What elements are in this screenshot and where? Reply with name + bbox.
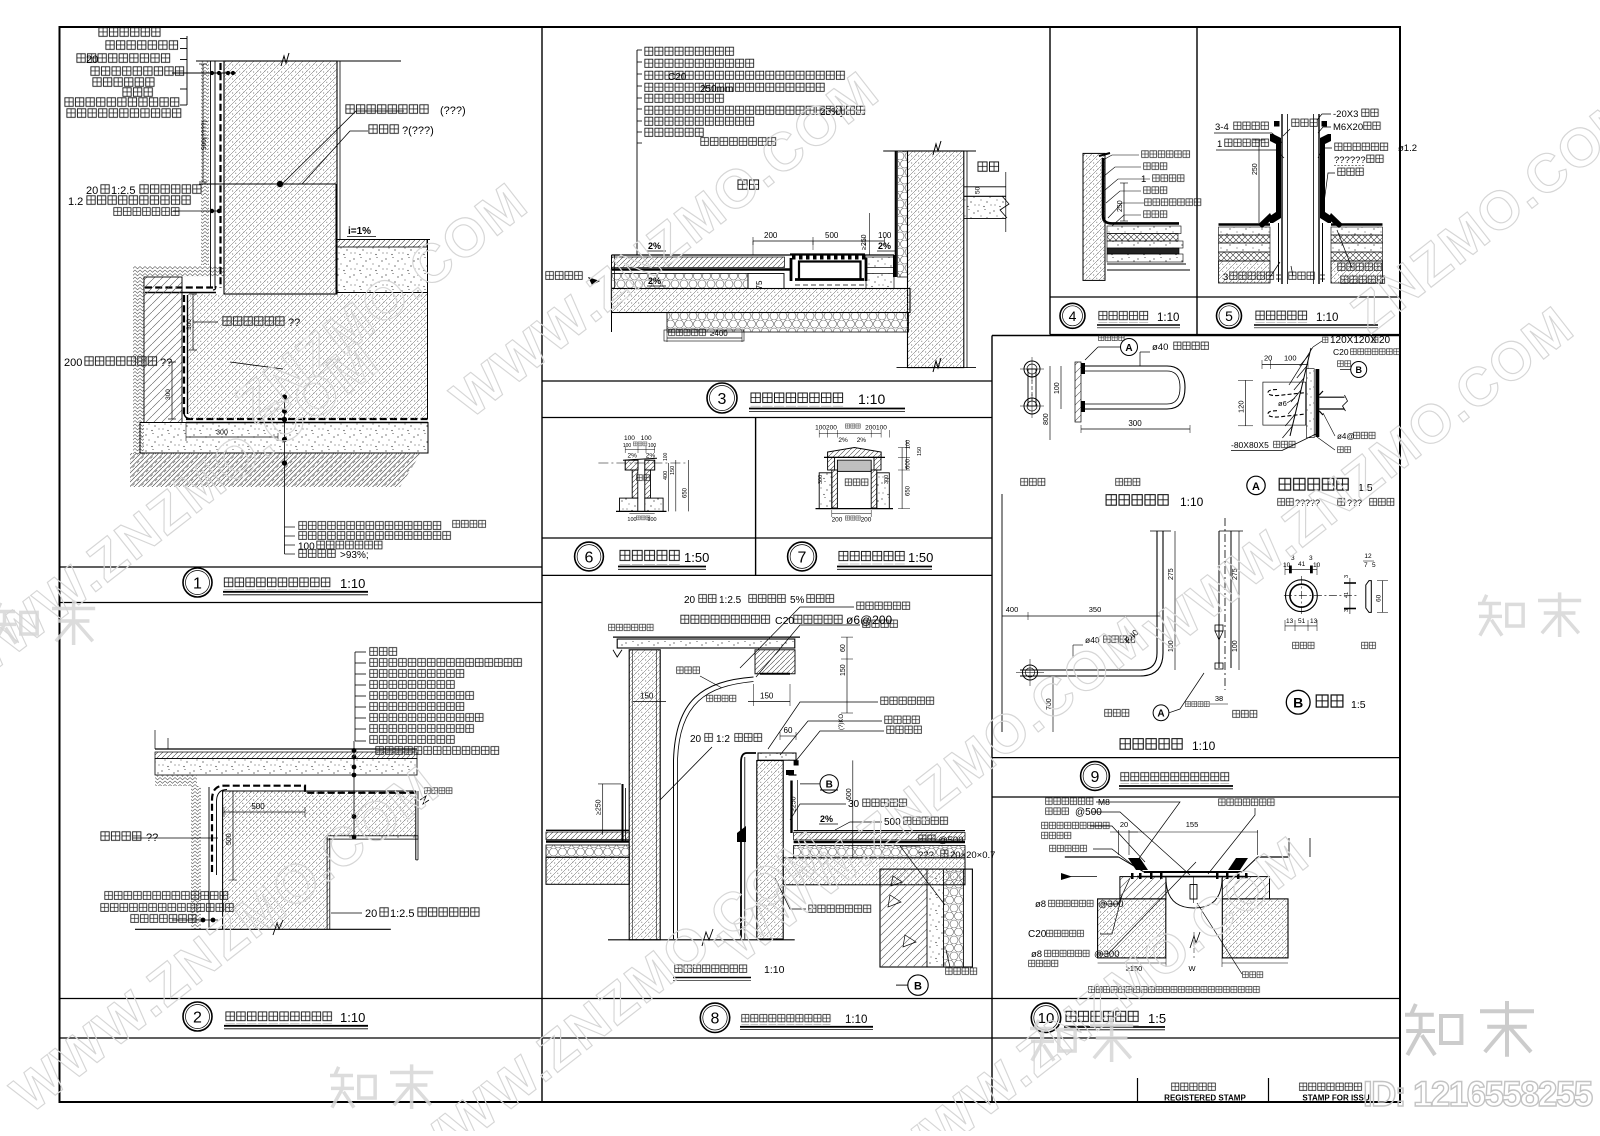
svg-text:100: 100 [878, 231, 892, 240]
d2 right small label [424, 787, 453, 795]
d1 base slab speckle [140, 423, 428, 454]
svg-text:20: 20 [684, 595, 696, 606]
svg-text:1:10: 1:10 [1180, 495, 1204, 509]
svg-text:1: 1 [193, 575, 202, 592]
d8 duct label [676, 666, 700, 675]
title band detail 2 (full width row) [60, 998, 1401, 1000]
d5 roof layers right [1331, 223, 1383, 226]
svg-text:200100: 200100 [865, 425, 887, 432]
d2 dim ticks above slab left [154, 730, 156, 749]
svg-text:(?)KO: (?)KO [839, 714, 845, 730]
d3 right wall: membrane+insulation+concrete [895, 151, 897, 277]
d3 roof layers left of gutter [612, 257, 785, 268]
d9 flange B dims top [1285, 568, 1317, 570]
d1 footing mass [188, 294, 428, 419]
svg-text:60: 60 [840, 644, 847, 652]
d3 eave label [545, 270, 583, 281]
d8 leader labels top right [856, 601, 911, 611]
svg-text:2%: 2% [820, 814, 833, 824]
svg-text:-80X80X5: -80X80X5 [1231, 440, 1269, 450]
d3 interior floor slab right [964, 186, 1006, 188]
d9 A note [1277, 497, 1294, 507]
d8 left dim ge250 [602, 784, 604, 835]
d9 side view dims [1238, 531, 1240, 670]
d9 connection detail A (top right) [1322, 336, 1329, 344]
svg-text:A: A [1125, 343, 1132, 354]
d9 connA wall edge hatched [1290, 348, 1311, 436]
d8 roof right part [794, 830, 965, 832]
d8 left wall membrane upturn [622, 784, 624, 842]
svg-text:60: 60 [1376, 594, 1383, 602]
svg-text:400: 400 [663, 471, 669, 480]
d9 A symbol bottom [1153, 705, 1169, 721]
svg-text:100: 100 [906, 440, 912, 449]
d9 connA leader from header [1289, 347, 1313, 385]
svg-text:100: 100 [648, 443, 657, 449]
svg-text:20: 20 [86, 54, 98, 66]
svg-text:1.2: 1.2 [68, 196, 83, 208]
d2 spec text block [369, 646, 398, 657]
svg-text:1: 1 [1217, 139, 1222, 150]
d10 caption [1088, 986, 1260, 995]
d3 wall bottom break [933, 358, 941, 372]
svg-text:250: 250 [1117, 200, 1124, 212]
svg-text:100: 100 [663, 452, 669, 461]
svg-text:300: 300 [1128, 419, 1142, 428]
svg-text:650: 650 [683, 487, 689, 498]
d8 parapet small label [608, 623, 654, 632]
svg-text:C20: C20 [1028, 929, 1047, 940]
detail 8: roof mechanical exhaust duct [546, 593, 995, 995]
d9 A title [1247, 476, 1265, 494]
svg-text:500: 500 [251, 802, 265, 811]
d4 wall cap flashing [1099, 153, 1110, 156]
svg-text:150: 150 [840, 664, 847, 676]
svg-text:60: 60 [784, 726, 793, 735]
svg-text:3: 3 [718, 391, 727, 408]
svg-text:ø8: ø8 [1031, 949, 1042, 960]
d7 top dims [819, 433, 881, 435]
d8 inset B circle [908, 975, 928, 995]
title band details 4/5 [1050, 296, 1400, 298]
column divider left/middle [541, 27, 543, 1102]
svg-text:200: 200 [764, 231, 778, 240]
d6 bottom dims [629, 513, 654, 515]
svg-text:8: 8 [711, 1011, 720, 1028]
d5 pipe walls [1281, 114, 1283, 284]
d8 right dim ge250 [797, 780, 799, 830]
bottom stamp strip [1137, 1078, 1139, 1102]
watermark zhimo big bottom right [1405, 1001, 1534, 1057]
d3 right roof strip near wall [866, 257, 894, 268]
d1 dim 300 vertical upper [192, 294, 194, 350]
svg-text:3: 3 [1344, 609, 1350, 612]
d9 flange B dims bottom [1285, 625, 1317, 627]
d8 right face membrane upturn [790, 781, 792, 834]
d10 waterstop label [1242, 971, 1264, 979]
svg-text:1:5: 1:5 [1351, 699, 1366, 711]
detail 2: basement roof slab waterproofing corner [100, 646, 523, 935]
d9 connA embed plate [1316, 369, 1320, 437]
d7 cap side tabs [828, 457, 835, 470]
d9 U-bar side view tubes [1081, 366, 1185, 409]
d2 left end backfill [155, 775, 197, 786]
d7 cap slab [828, 448, 882, 458]
d8 cap right downstand [755, 650, 795, 674]
d1 earth below slab [130, 453, 421, 487]
d1 membrane wall vertical [219, 63, 221, 288]
svg-text:ø6: ø6 [1278, 399, 1287, 408]
svg-text:ø40: ø40 [1152, 342, 1168, 353]
detail4/5 divider [1196, 27, 1198, 335]
svg-text:i=1%: i=1% [348, 226, 371, 237]
svg-text:100: 100 [1054, 382, 1061, 394]
d8 roof left part [546, 829, 629, 831]
d5 sleeve lines [1278, 223, 1280, 282]
svg-text:120: 120 [1237, 400, 1246, 413]
d5 collar left [1270, 134, 1281, 223]
d2 label membrane left [100, 830, 142, 842]
title band detail 8 [700, 1003, 729, 1032]
d3 grate teeth [790, 253, 865, 255]
svg-text:2: 2 [193, 1009, 202, 1026]
svg-text:200: 200 [861, 517, 872, 524]
svg-text:1:2.5: 1:2.5 [719, 595, 742, 606]
svg-text:2%: 2% [838, 437, 848, 444]
svg-text:C20: C20 [1333, 347, 1349, 357]
d8 inset detail B [880, 869, 972, 967]
svg-text:20: 20 [1120, 820, 1128, 829]
svg-text:5: 5 [1225, 308, 1233, 324]
svg-text:ø1.2: ø1.2 [1398, 143, 1417, 154]
svg-text:100: 100 [1284, 354, 1297, 363]
d2 dim 500 horizontal [224, 811, 305, 813]
d3 dims above [753, 240, 885, 242]
svg-text:1:10: 1:10 [340, 1010, 365, 1025]
d1 label: waterstop [345, 103, 429, 115]
svg-text:1:50: 1:50 [908, 550, 933, 565]
svg-text:200: 200 [832, 517, 843, 524]
svg-text:2%: 2% [627, 453, 637, 460]
svg-text:1:2.5: 1:2.5 [390, 908, 414, 920]
svg-text:100: 100 [623, 443, 632, 449]
svg-text:500: 500 [226, 833, 233, 845]
svg-text:??: ?? [160, 357, 172, 369]
svg-text:≥400: ≥400 [710, 329, 728, 338]
detail 6: vent well section 1 [598, 435, 688, 523]
title band detail 1 [60, 566, 543, 568]
svg-text:???: ??? [918, 850, 934, 861]
svg-text:30: 30 [848, 799, 860, 810]
svg-text:ø8: ø8 [1035, 899, 1046, 910]
svg-text:1:50: 1:50 [684, 550, 709, 565]
d5 label sealant top [1291, 118, 1318, 128]
d9 U-bar flange plates [1081, 363, 1085, 374]
svg-text:5: 5 [1372, 562, 1376, 569]
svg-text:ø4@: ø4@ [1337, 432, 1354, 441]
d9 L-bar dims [1002, 615, 1160, 617]
svg-text:2%: 2% [857, 437, 867, 444]
svg-text:1:10: 1:10 [1316, 312, 1338, 324]
svg-text:41: 41 [1344, 592, 1350, 598]
svg-text:B: B [1355, 365, 1362, 375]
svg-text:500(????): 500(????) [201, 120, 208, 150]
d1 dim 300 bottom [186, 436, 278, 438]
d9 connA dims [1262, 364, 1308, 366]
d9 captions [1104, 708, 1130, 718]
svg-text:150: 150 [760, 692, 774, 701]
svg-text:10: 10 [1313, 562, 1321, 569]
title band details 6/7 [542, 537, 992, 539]
d7 well label [845, 478, 869, 487]
d9 U-bar dims [1060, 366, 1062, 409]
d8 right vent wall [757, 761, 783, 940]
svg-text:200: 200 [64, 357, 82, 369]
svg-text:150: 150 [670, 466, 676, 475]
d4 dim 250 [1123, 183, 1125, 221]
detail 1: basement exterior wall waterproofing [64, 26, 487, 561]
d9 connA dashed box [1263, 382, 1306, 425]
d10 floor surface right [1258, 856, 1290, 858]
svg-text:1: 1 [1141, 174, 1146, 185]
d4 parapet wall concrete [1083, 153, 1105, 280]
d2 interior wall face strip [326, 838, 328, 929]
svg-text:>93%;: >93%; [340, 550, 369, 561]
d10 cover plate assembly [1119, 857, 1258, 872]
svg-text:1:10: 1:10 [1157, 312, 1179, 324]
d2 wall backfill strip [191, 786, 201, 930]
d1 membrane vertical lower [183, 295, 185, 414]
d3 soffit insulation band [667, 313, 909, 333]
svg-text:A: A [1157, 709, 1164, 720]
d8 duct curve [674, 677, 754, 939]
d10 gap centerline & waterstop [1166, 878, 1222, 908]
svg-text:6: 6 [585, 549, 594, 566]
d6 well label [636, 474, 650, 482]
svg-text:B: B [914, 981, 922, 993]
svg-text:9: 9 [1091, 769, 1100, 786]
d5 dim 250 [1258, 140, 1260, 223]
d9 connA pipe [1319, 396, 1344, 398]
d7 louver [837, 460, 871, 471]
d9 L-bar side view [1224, 518, 1226, 690]
d1 dim 300 vertical lower [171, 362, 173, 419]
svg-text:150: 150 [917, 447, 923, 456]
d2 dim 500 vertical [232, 791, 234, 880]
d2 notch ceiling speckled band [327, 836, 418, 839]
d10 floor surface left [1065, 856, 1119, 858]
svg-text:7: 7 [798, 549, 807, 566]
svg-text:-20X3: -20X3 [1333, 109, 1358, 120]
svg-text:300: 300 [818, 475, 824, 484]
d5 membrane flashing slopes [1258, 213, 1273, 228]
svg-text:3: 3 [1223, 272, 1228, 283]
d8 left lower membrane to roof [590, 823, 598, 825]
svg-text:650: 650 [906, 485, 912, 496]
svg-text:400: 400 [1006, 605, 1019, 614]
svg-text:275: 275 [1168, 568, 1175, 580]
d1 layer leader with dots [172, 72, 236, 74]
d1 wall concrete [224, 61, 337, 294]
svg-text:100: 100 [624, 435, 635, 442]
d9 U-bar front view flange circles [1024, 361, 1040, 377]
svg-text:1:10: 1:10 [845, 1014, 867, 1026]
svg-text:B: B [1293, 695, 1303, 711]
d6 right dims [668, 463, 670, 511]
svg-text:600: 600 [906, 458, 912, 469]
d7 footings [819, 473, 832, 509]
svg-text:250: 250 [1252, 163, 1259, 175]
d8 right vent wall cap [758, 753, 796, 760]
svg-text:1:5: 1:5 [1148, 1011, 1166, 1026]
svg-text:51: 51 [1298, 618, 1306, 625]
d10 top dims [1118, 830, 1120, 855]
svg-text:50: 50 [974, 186, 981, 194]
d4 roof layers [1107, 226, 1181, 234]
svg-text:1:10: 1:10 [1192, 739, 1216, 753]
svg-text:20×20×0.7: 20×20×0.7 [950, 850, 995, 861]
d8 inset leader labels [918, 834, 936, 844]
d4 membrane on wall face [1103, 158, 1179, 223]
detail 10: floor expansion joint [1028, 797, 1310, 994]
svg-text:A: A [1252, 481, 1260, 493]
d1 protection wall hatch [144, 277, 182, 423]
d1 wall right face lower [335, 184, 337, 294]
d3 insulation width dim [667, 337, 742, 339]
d9 flange B side view [1366, 581, 1372, 613]
d1 joint leaders [281, 111, 404, 185]
svg-text:@500: @500 [1075, 807, 1102, 818]
d6 cap right [645, 460, 655, 470]
d1 membrane step top [145, 286, 213, 288]
svg-text:??: ?? [288, 317, 300, 329]
svg-text:5%: 5% [790, 595, 805, 606]
d8 right flashing labels [880, 696, 935, 706]
svg-text:2%: 2% [646, 453, 656, 460]
d7 walls [832, 470, 838, 508]
svg-text:350: 350 [1089, 605, 1102, 614]
d1 construction joint [199, 183, 336, 185]
d9 connA anchor hooks dashed [1268, 390, 1306, 396]
d3 text bracket [636, 50, 638, 255]
detail 9: accessible grab bars [1002, 334, 1400, 753]
title band detail 10 [1031, 1003, 1060, 1032]
d7 right dims [901, 448, 903, 509]
svg-text:1:10: 1:10 [858, 391, 885, 407]
d10 label right [1218, 798, 1275, 807]
d1 text block top-left [98, 26, 161, 38]
d9 B title [1286, 690, 1310, 714]
d1 bottom leader with dots [284, 397, 286, 554]
d9 view captions [1020, 477, 1046, 487]
svg-text:13: 13 [1286, 618, 1294, 625]
svg-text:20: 20 [1264, 354, 1272, 363]
detail 3: roof drain gutter [545, 46, 1009, 372]
detail 7: exhaust well section [815, 423, 923, 523]
d1 ground line [196, 60, 401, 62]
d8 inset waterproof label [945, 967, 978, 976]
d10 left arrow [1061, 873, 1072, 880]
svg-text:155: 155 [1186, 820, 1199, 829]
svg-text:100: 100 [647, 517, 656, 523]
d10 slabs lower [1098, 899, 1166, 958]
sheet frame [60, 27, 1401, 1102]
d9 connA weld marks [1319, 391, 1323, 415]
d4 label leaders [1103, 155, 1139, 160]
d3 spec text block [644, 46, 735, 58]
d6 bottom line [616, 510, 667, 512]
title band detail 9 [992, 335, 1400, 337]
d9 A symbol top [1121, 339, 1138, 356]
d3 gutter channel [799, 262, 861, 280]
d3 75 box [748, 274, 784, 289]
d7 bottom dims [832, 513, 871, 515]
d8 60-150 dims top right [846, 637, 848, 713]
d8 B symbol [820, 775, 838, 793]
d9 L-bar tubes [1020, 531, 1157, 670]
svg-text:STAMP FOR ISSU: STAMP FOR ISSU [1302, 1094, 1369, 1103]
d10 break symbol bottom [1190, 932, 1200, 948]
d2 top slab surface [155, 748, 417, 750]
d4 labels [1141, 150, 1191, 159]
svg-text:(???): (???) [440, 105, 466, 117]
svg-text:3-4: 3-4 [1215, 122, 1229, 133]
d9 connA mortar strip [1307, 369, 1315, 438]
d10 leader lines with X crossing [1096, 802, 1180, 861]
d9 side view flanges [1215, 625, 1223, 631]
d6 walls [632, 470, 638, 498]
svg-text:38: 38 [1215, 694, 1223, 703]
d1 membrane protection lines [210, 61, 212, 288]
d9 L-bar wall line [1001, 494, 1003, 732]
d2 membrane dashed wrap with step [212, 786, 415, 872]
d2 bottom-left labels [104, 890, 229, 901]
d9 flange B front view [1286, 580, 1318, 612]
d8 inner subtitle [674, 964, 748, 975]
d9 L-bar top ticks [1150, 530, 1171, 532]
d8 cap slab [613, 636, 800, 638]
d1 vertical dim 500 at wall left [202, 64, 204, 182]
detail 4: parapet flashing [1083, 150, 1202, 281]
svg-text:1:2: 1:2 [716, 734, 730, 745]
d5 roof layers left [1219, 223, 1271, 226]
d3 roof surface [612, 254, 895, 256]
svg-text:100: 100 [1232, 640, 1239, 652]
svg-text:100: 100 [627, 517, 636, 523]
svg-text:250mm: 250mm [700, 84, 733, 95]
d8 dims 150 [633, 701, 666, 703]
d6 ground dash line [598, 462, 688, 464]
svg-text:800: 800 [1043, 413, 1050, 425]
d2 right edge [415, 791, 417, 860]
svg-text:7: 7 [1364, 562, 1368, 569]
svg-text:300: 300 [884, 475, 890, 484]
svg-text:≥250: ≥250 [861, 234, 868, 250]
d1 text bracket [186, 36, 188, 105]
svg-text:150: 150 [640, 692, 654, 701]
svg-text:13: 13 [1310, 618, 1318, 625]
d2 inner membrane line [217, 790, 228, 876]
svg-text:B: B [826, 780, 833, 791]
d1 membrane bottom horizontal [186, 418, 428, 420]
d10 angled seal plates [1128, 858, 1148, 870]
divider middle/right lower [991, 336, 993, 1103]
svg-text:ID: 1216558255: ID: 1216558255 [1363, 1075, 1593, 1114]
svg-text:M6X20: M6X20 [1333, 122, 1363, 133]
d9 L-bar end flange [1023, 665, 1038, 680]
svg-text:12: 12 [1364, 553, 1372, 560]
svg-text:1:10: 1:10 [340, 576, 365, 591]
